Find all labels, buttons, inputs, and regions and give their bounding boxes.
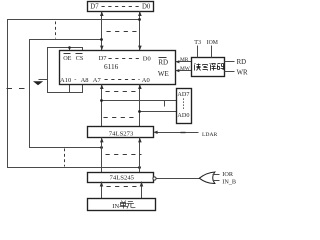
svg-text:IN: IN xyxy=(112,203,119,210)
arrow into 6116 MR xyxy=(175,60,179,63)
svg-text:74LS273: 74LS273 xyxy=(109,130,134,137)
glyph 码 xyxy=(218,64,224,70)
svg-text:T3: T3 xyxy=(194,39,201,46)
wire AD7 branch xyxy=(102,100,177,102)
svg-text:D7: D7 xyxy=(90,3,99,10)
svg-text:D0: D0 xyxy=(143,55,151,62)
address display box AD7-AD0 xyxy=(177,89,192,124)
wire IOM input xyxy=(211,46,213,58)
svg-text:D0: D0 xyxy=(142,3,151,10)
arrow down into 6116 top right xyxy=(138,46,142,51)
svg-text:A10: A10 xyxy=(60,77,71,84)
svg-text:IOR: IOR xyxy=(222,171,234,178)
arrow up into 74LS245 right xyxy=(140,182,144,187)
svg-text:A8: A8 xyxy=(81,77,89,84)
svg-text:A7: A7 xyxy=(93,77,102,84)
svg-text:6116: 6116 xyxy=(104,62,119,71)
wire MR from 6116 to decoder xyxy=(176,61,192,63)
dashed bus continuation between top verticals xyxy=(107,31,139,33)
wire data right vertical 74LS273 to 74LS245 xyxy=(139,138,141,173)
svg-text:IOM: IOM xyxy=(207,40,218,46)
enable bubble on 74LS245 xyxy=(153,177,156,180)
glyph 写 xyxy=(203,65,208,71)
node inner loop top junction xyxy=(100,38,103,41)
OR gate (mirrored) xyxy=(199,172,219,184)
arrow up into data bus box xyxy=(100,11,104,16)
outer bus loop wire xyxy=(8,20,140,168)
glyph 元 xyxy=(127,202,135,209)
wire WR output xyxy=(225,71,235,73)
RAM 6116 xyxy=(60,51,176,85)
svg-text:IN_B: IN_B xyxy=(222,179,236,186)
wire IN unit right stub xyxy=(141,182,143,199)
arrow up into data bus box right xyxy=(138,11,142,16)
svg-text:LDAR: LDAR xyxy=(202,132,217,138)
wire MW from 6116 to decoder xyxy=(176,70,192,72)
wire data left vertical 74LS273 to 74LS245 xyxy=(101,138,103,173)
wire IN unit left stub xyxy=(101,182,103,199)
node OE stub junction xyxy=(68,46,71,49)
dashed address bundle upper xyxy=(106,91,138,93)
wire T3 input xyxy=(197,46,199,58)
arrow up into 74LS273 right xyxy=(138,138,142,143)
wire RD output xyxy=(225,61,235,63)
node AD0 branch junction xyxy=(138,110,141,113)
data bus box D7-D0 xyxy=(88,2,154,12)
svg-text:CS: CS xyxy=(76,55,84,62)
dashed bus mark top-left xyxy=(55,22,57,39)
svg-text:MW: MW xyxy=(180,66,191,72)
arrow up into 74LS245 left xyxy=(100,182,104,187)
glyph 译 xyxy=(210,64,217,71)
arrow up into 74LS273 left xyxy=(100,138,104,143)
wire OE/CS tie loop around 6116 xyxy=(48,48,83,93)
wire A10-A8 stub xyxy=(69,85,71,93)
svg-text:OE: OE xyxy=(63,55,71,62)
buffer 74LS245 xyxy=(88,173,154,183)
svg-text:-: - xyxy=(74,77,76,84)
dashed bus mark bottom-left xyxy=(64,149,66,167)
svg-text:AD0: AD0 xyxy=(177,112,189,119)
inner bus loop wire xyxy=(30,40,102,148)
svg-text:74LS245: 74LS245 xyxy=(110,174,135,181)
wire address right vertical 6116 to 74LS273 xyxy=(139,85,141,127)
IN unit box xyxy=(88,199,156,211)
dashed bundle between 273 and 245 xyxy=(106,154,142,156)
svg-text:A0: A0 xyxy=(142,77,150,84)
wire address left vertical 6116 to 74LS273 xyxy=(101,85,103,127)
read/write decoder box xyxy=(192,58,225,77)
wire OE stub xyxy=(69,48,71,51)
dashed bundle between 245 and IN unit xyxy=(107,186,137,188)
glyph 读 xyxy=(195,64,201,71)
svg-text:WE: WE xyxy=(158,70,169,78)
dashed bus mark left middle xyxy=(7,88,28,90)
svg-text:MR: MR xyxy=(180,57,189,63)
arrow up into 6116 bottom right xyxy=(138,84,142,89)
svg-text:RD: RD xyxy=(237,59,247,66)
dashed address bundle lower xyxy=(104,117,136,119)
svg-text:AD7: AD7 xyxy=(177,91,189,98)
node AD7 branch junction xyxy=(100,99,103,102)
wire enable to OR gate xyxy=(157,178,200,180)
glyph 单 xyxy=(120,201,128,209)
node inner loop bottom junction xyxy=(100,146,103,149)
arrow into 6116 MW xyxy=(175,69,179,72)
latch 74LS273 xyxy=(88,127,154,138)
tick on AD7 wire xyxy=(164,101,166,107)
wire data bus right vertical D0 xyxy=(139,12,141,51)
node outer loop top junction xyxy=(138,18,141,21)
node outer loop bottom junction xyxy=(138,166,141,169)
svg-text:WR: WR xyxy=(237,69,248,76)
wire data bus left vertical D7 xyxy=(101,12,103,51)
arrow down into 6116 top xyxy=(100,46,104,51)
ground arrow on tie line xyxy=(33,80,48,86)
arrow up into 6116 bottom left xyxy=(100,84,104,89)
svg-text:RD: RD xyxy=(158,58,168,66)
wire LDAR xyxy=(153,131,198,134)
wire AD0 branch xyxy=(140,111,177,113)
